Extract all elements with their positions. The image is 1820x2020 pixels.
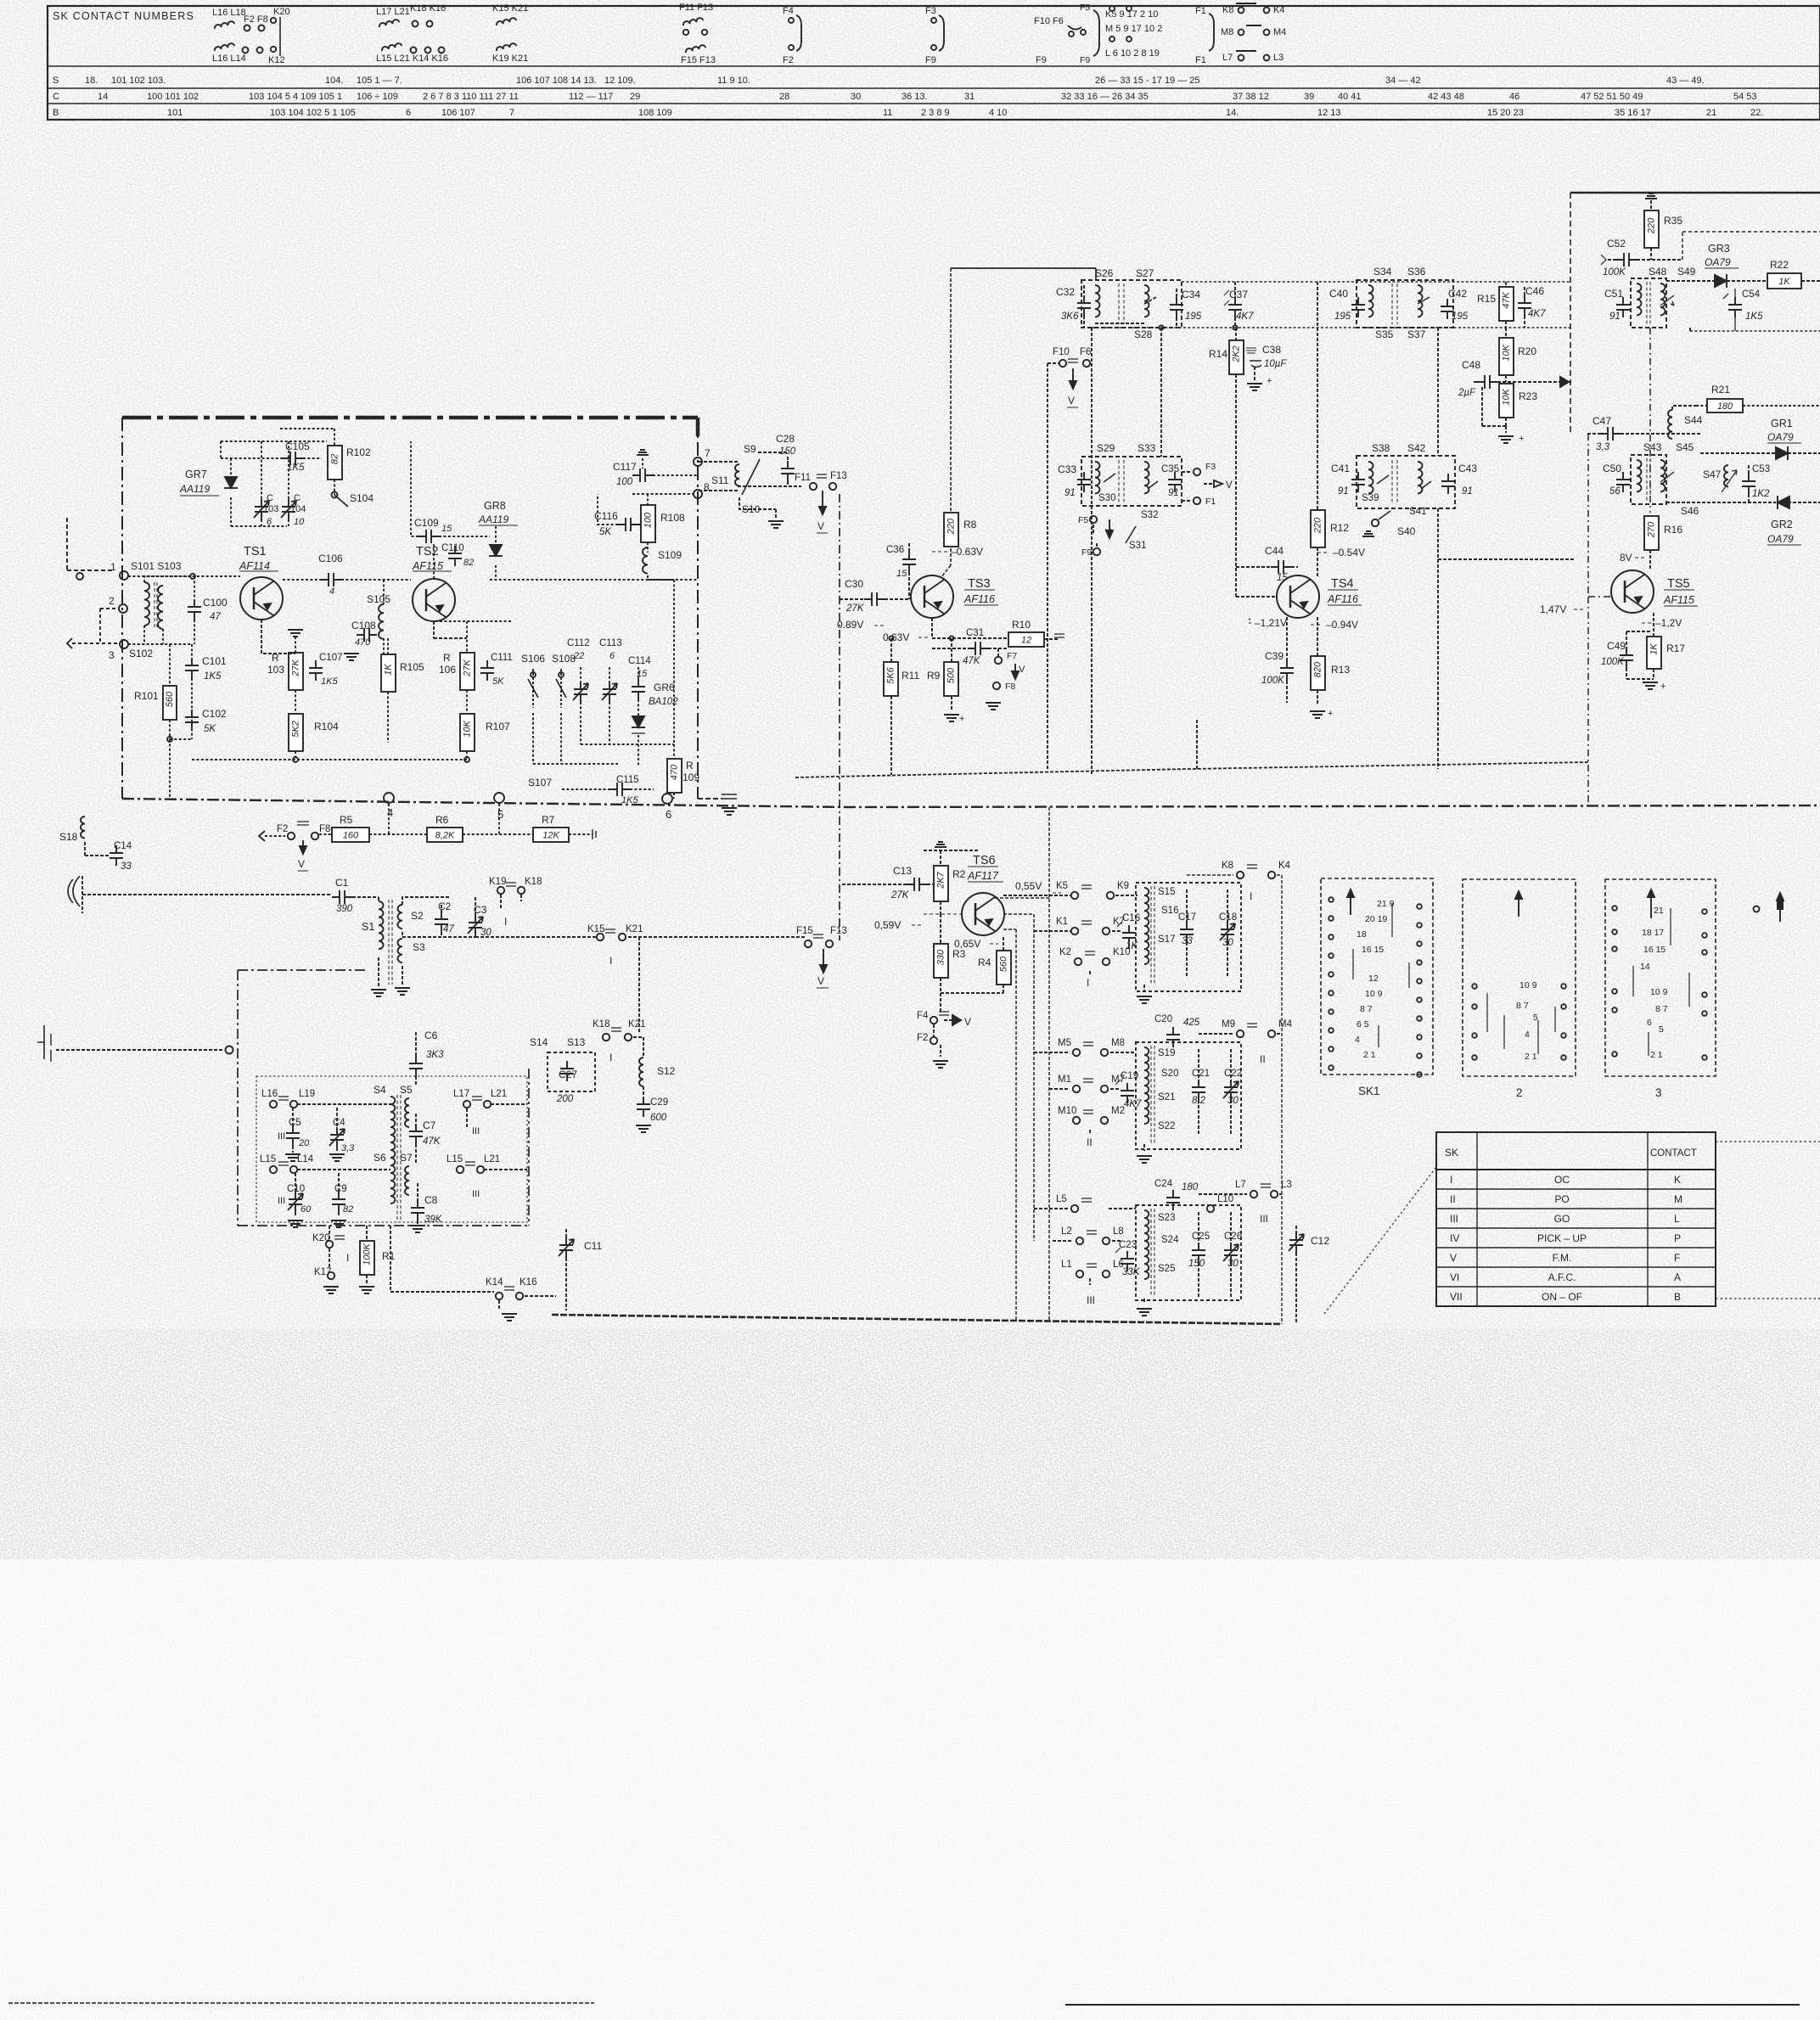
svg-text:F5: F5 [1078, 515, 1088, 525]
antenna input terminal 2 [100, 595, 127, 644]
ground under R9 [944, 714, 964, 724]
contact F13 [817, 471, 847, 490]
svg-text:S18: S18 [59, 831, 78, 843]
transformer4 risers [1438, 328, 1574, 769]
svg-text:6: 6 [1647, 1018, 1652, 1028]
svg-text:C42: C42 [1448, 288, 1467, 300]
svg-text:V: V [1105, 527, 1111, 537]
svg-text:F8: F8 [1005, 682, 1015, 692]
svg-text:560: 560 [165, 691, 175, 707]
svg-text:F2: F2 [783, 55, 794, 65]
coil S44 [1668, 406, 1703, 439]
diode GR7 AA119 [179, 458, 238, 526]
svg-text:A: A [1674, 1271, 1681, 1283]
switch S40 [1362, 511, 1416, 537]
resistor R8 [944, 513, 977, 547]
resistor R35 [1644, 194, 1682, 260]
capacitor C23 [1115, 1240, 1141, 1277]
svg-text:F3: F3 [925, 6, 936, 16]
svg-text:C114: C114 [628, 656, 651, 666]
svg-text:S15: S15 [1158, 887, 1175, 897]
capacitor C42 [1441, 288, 1469, 322]
svg-text:I: I [1250, 890, 1252, 902]
svg-text:1K: 1K [1778, 277, 1790, 287]
svg-text:C1: C1 [335, 877, 349, 889]
svg-text:36 13.: 36 13. [902, 92, 928, 102]
capacitor C5 [278, 1108, 310, 1161]
svg-text:4: 4 [329, 586, 334, 597]
svg-text:47K: 47K [963, 656, 981, 666]
svg-text:AF116: AF116 [1327, 593, 1358, 605]
svg-text:105 1 — 7.: 105 1 — 7. [357, 76, 402, 86]
svg-text:C44: C44 [1265, 545, 1284, 557]
svg-text:L15: L15 [447, 1154, 463, 1164]
svg-text:L16 L14: L16 L14 [212, 53, 246, 64]
capacitor C22 [1223, 1049, 1242, 1134]
svg-text:600: 600 [650, 1113, 667, 1123]
switch S108 [552, 653, 576, 708]
contact-number table frame [48, 6, 1820, 120]
svg-text:2 6 7 8 3 110 111 27 11: 2 6 7 8 3 110 111 27 11 [423, 92, 519, 102]
svg-text:R10: R10 [1012, 619, 1031, 631]
labels S48 S49 [1649, 266, 1696, 278]
voltage -1.2V [1642, 617, 1682, 629]
svg-text:S6: S6 [374, 1152, 386, 1164]
contacts K14 K16 [390, 1226, 556, 1321]
resistor R102 [280, 429, 371, 495]
trimmer C11 [559, 1229, 602, 1310]
svg-text:S26: S26 [1095, 267, 1114, 279]
svg-text:60: 60 [301, 1204, 312, 1215]
capacitor C35 [1161, 464, 1182, 498]
svg-text:18 17: 18 17 [1642, 928, 1664, 938]
resistor R16 [1644, 516, 1682, 550]
svg-text:V: V [1019, 665, 1025, 675]
svg-text:C11: C11 [584, 1240, 602, 1252]
svg-text:M5: M5 [1058, 1038, 1071, 1048]
diode GR3 OA79 [1666, 243, 1767, 288]
capacitor C47 [1587, 415, 1700, 452]
svg-text:R12: R12 [1330, 522, 1349, 534]
svg-text:1K: 1K [383, 664, 393, 676]
capacitor C8 [410, 1183, 443, 1232]
svg-text:VII: VII [1450, 1291, 1463, 1303]
svg-text:M: M [1674, 1193, 1682, 1205]
svg-text:C29: C29 [650, 1097, 668, 1108]
svg-text:21: 21 [1654, 906, 1664, 916]
svg-text:47 52 51 50 49: 47 52 51 50 49 [1581, 92, 1643, 102]
transistor TS6 [962, 854, 1004, 935]
antenna coil S101/S103 [144, 576, 193, 644]
svg-text:R108: R108 [660, 512, 685, 524]
svg-text:R22: R22 [1770, 259, 1789, 271]
contacts L5 L10 [1034, 1194, 1233, 1212]
capacitor C1 [332, 877, 379, 914]
svg-text:10K: 10K [1501, 389, 1511, 406]
svg-text:C26: C26 [1224, 1232, 1242, 1242]
svg-text:12K: 12K [542, 831, 559, 841]
svg-text:F10 F6: F10 F6 [1034, 16, 1064, 26]
svg-text:AF114: AF114 [239, 560, 270, 572]
svg-text:37 38 12: 37 38 12 [1233, 92, 1269, 102]
svg-text:12: 12 [1368, 974, 1379, 984]
svg-text:100 101 102: 100 101 102 [147, 92, 199, 102]
svg-text:M1: M1 [1058, 1075, 1071, 1085]
svg-text:47: 47 [210, 612, 221, 622]
contact F2 [277, 822, 309, 839]
svg-text:PICK – UP: PICK – UP [1537, 1232, 1587, 1244]
svg-text:160: 160 [343, 831, 359, 841]
svg-text:L16 L18: L16 L18 [212, 8, 246, 18]
capacitor C10 [278, 1173, 312, 1227]
capacitor C18 [1219, 889, 1237, 976]
svg-text:L7: L7 [1235, 1180, 1246, 1190]
svg-text:C112: C112 [567, 638, 590, 648]
switch unit SK1 [1321, 878, 1433, 1097]
svg-text:8 7: 8 7 [1655, 1004, 1668, 1014]
svg-text:3: 3 [109, 649, 115, 661]
svg-text:C27: C27 [559, 1069, 577, 1080]
svg-text:R101: R101 [134, 690, 159, 702]
svg-text:C28: C28 [776, 433, 795, 445]
svg-text:S12: S12 [657, 1065, 676, 1077]
svg-text:C24: C24 [1154, 1179, 1173, 1189]
svg-text:27K: 27K [462, 659, 472, 677]
capacitor C54 [1723, 289, 1763, 331]
svg-text:K18: K18 [525, 877, 542, 887]
svg-text:S30: S30 [1098, 493, 1115, 503]
resistor R11 [884, 662, 919, 696]
svg-text:S44: S44 [1684, 414, 1703, 426]
svg-text:R16: R16 [1664, 524, 1682, 536]
svg-text:I: I [609, 1052, 612, 1063]
svg-text:220: 220 [1312, 517, 1323, 534]
svg-text:S49: S49 [1677, 266, 1696, 278]
svg-text:C20: C20 [1154, 1014, 1172, 1024]
svg-text:103 104 102 5 1 105: 103 104 102 5 1 105 [270, 108, 356, 118]
svg-text:47: 47 [443, 924, 454, 934]
svg-text:III: III [472, 1189, 480, 1199]
svg-text:C34: C34 [1182, 289, 1200, 300]
svg-text:III: III [472, 1126, 480, 1136]
svg-text:C106: C106 [318, 553, 343, 564]
svg-text:560: 560 [998, 956, 1008, 972]
trimmer C113 [599, 638, 622, 744]
svg-text:I: I [1450, 1174, 1452, 1186]
transistor TS2 [412, 545, 455, 621]
trimmer S47 [1703, 465, 1737, 492]
svg-text:C8: C8 [424, 1194, 438, 1206]
resistor R15 [1477, 282, 1514, 328]
svg-text:F4: F4 [917, 1011, 929, 1021]
contacts L15 L14 [260, 1154, 390, 1173]
svg-text:L15 L21 K14 K16: L15 L21 K14 K16 [376, 53, 448, 64]
svg-text:R: R [443, 652, 451, 664]
capacitor C19 [1115, 1071, 1142, 1109]
svg-text:S102: S102 [129, 648, 153, 659]
contact F6 [1067, 347, 1091, 407]
svg-text:I: I [609, 955, 612, 967]
capacitor C116 [594, 494, 645, 537]
long bottom wire to band switches [552, 1315, 1282, 1324]
switch S10 ground [739, 497, 784, 528]
svg-text:SK1: SK1 [1358, 1085, 1380, 1097]
svg-text:33K: 33K [1122, 1267, 1141, 1277]
svg-text:82: 82 [329, 454, 340, 464]
svg-text:2µF: 2µF [1458, 388, 1476, 398]
capacitor C48 [1458, 359, 1571, 398]
svg-text:C14: C14 [114, 841, 132, 851]
svg-text:106 107 108 14 13.: 106 107 108 14 13. [516, 76, 597, 86]
TS6 collector bus [995, 807, 1049, 1321]
resistor R109 [667, 744, 699, 799]
svg-text:C7: C7 [423, 1119, 436, 1131]
capacitor C49 [1601, 631, 1650, 679]
svg-text:0,55V: 0,55V [1015, 880, 1042, 892]
transistor TS5 [1611, 570, 1698, 613]
contacts K15 K21 [587, 924, 806, 1032]
svg-text:2: 2 [109, 595, 115, 607]
svg-text:K4: K4 [1273, 5, 1284, 15]
svg-text:270: 270 [1646, 521, 1656, 538]
capacitor C36 [886, 543, 916, 599]
contacts K5 K9 [1003, 881, 1137, 899]
IF transformer S34 S36 [1357, 266, 1453, 340]
varactor diode GR6 BA102 [632, 682, 678, 766]
svg-text:V: V [1450, 1252, 1457, 1264]
capacitor C105 [221, 440, 322, 473]
svg-text:4K7: 4K7 [1236, 311, 1254, 322]
FM det transformer S48/S49 [1631, 278, 1674, 328]
svg-text:C31: C31 [966, 628, 984, 638]
voltage -0.54V [1317, 547, 1365, 558]
svg-text:CONTACT: CONTACT [1650, 1148, 1697, 1159]
contacts L1 L6 [1061, 1260, 1124, 1306]
svg-text:–0.54V: –0.54V [1333, 547, 1365, 558]
svg-text:S31: S31 [1129, 541, 1146, 551]
svg-text:S42: S42 [1407, 442, 1426, 454]
svg-text:C38: C38 [1262, 344, 1281, 356]
wire tuner mid rails [434, 580, 674, 744]
capacitor C34 [1170, 289, 1202, 328]
row C contact numbers [53, 92, 1757, 102]
svg-text:AF115: AF115 [412, 560, 443, 572]
transistor TS3 [911, 575, 998, 618]
svg-text:K15 K21: K15 K21 [492, 3, 528, 14]
svg-text:112 — 117: 112 — 117 [569, 92, 613, 102]
svg-text:C113: C113 [599, 638, 622, 648]
svg-text:S36: S36 [1407, 266, 1426, 278]
svg-text:180: 180 [1717, 401, 1733, 412]
svg-text:VI: VI [1450, 1271, 1459, 1283]
svg-text:18.: 18. [85, 76, 98, 86]
IF transformer S38 S42 [1357, 442, 1455, 517]
supply rail TS6 [924, 842, 978, 850]
svg-text:K19: K19 [489, 877, 506, 887]
svg-text:C5: C5 [289, 1118, 301, 1128]
svg-text:12 109.: 12 109. [604, 76, 636, 86]
svg-text:3K6: 3K6 [1061, 311, 1079, 322]
switch unit 3 [1605, 879, 1716, 1099]
svg-text:10µF: 10µF [1264, 359, 1287, 369]
contacts M1 M7 [1049, 1075, 1125, 1092]
svg-text:K8: K8 [1222, 861, 1233, 871]
diode GR1 OA79 [1700, 418, 1820, 460]
resistor R13 [1311, 617, 1350, 704]
svg-text:34 — 42: 34 — 42 [1385, 76, 1421, 86]
lone contact right of unit 3 [1754, 893, 1784, 922]
svg-text:3K3: 3K3 [426, 1050, 444, 1060]
svg-text:S17: S17 [1158, 934, 1175, 945]
svg-text:F6: F6 [1080, 347, 1091, 357]
LW coil pack S23-S25 [1136, 1205, 1241, 1316]
svg-text:ON – OF: ON – OF [1542, 1291, 1582, 1303]
svg-text:470: 470 [669, 764, 679, 780]
svg-text:M8: M8 [1221, 27, 1233, 37]
voltage -0.94V [1311, 619, 1358, 631]
svg-text:–1,21V: –1,21V [1255, 617, 1287, 629]
oscillator coil S4/S6 [374, 1084, 413, 1222]
contacts M10 M2 [1058, 1106, 1125, 1148]
dipole antenna bracket [37, 1025, 233, 1062]
wire jack to C1 [98, 894, 332, 895]
svg-text:S47: S47 [1703, 469, 1722, 480]
svg-text:C36: C36 [886, 545, 904, 555]
svg-text:82: 82 [343, 1204, 353, 1215]
capacitor C16 [1117, 913, 1140, 951]
svg-text:R104: R104 [314, 721, 339, 732]
labels S43 S45 [1643, 441, 1694, 453]
svg-text:I: I [346, 1252, 349, 1264]
svg-text:S9: S9 [744, 443, 756, 455]
transistor TS4 [1277, 575, 1362, 618]
svg-text:R5: R5 [340, 814, 353, 826]
FM tuner unit dash-dot enclosure [122, 418, 698, 799]
resistor R6 [369, 814, 514, 842]
svg-text:40 41: 40 41 [1338, 92, 1362, 102]
svg-text:C47: C47 [1592, 415, 1611, 427]
band group K15 K21 [492, 3, 528, 64]
capacitor C27 [548, 1052, 595, 1104]
svg-text:10: 10 [294, 517, 305, 527]
svg-text:C102: C102 [202, 708, 227, 720]
capacitor C13 [842, 865, 935, 901]
svg-text:C51: C51 [1604, 288, 1623, 300]
svg-text:22.: 22. [1750, 108, 1763, 118]
svg-text:F1: F1 [1195, 55, 1206, 65]
svg-text:I: I [504, 916, 507, 928]
svg-text:M2: M2 [1111, 1106, 1125, 1116]
svg-text:C109: C109 [414, 517, 439, 529]
svg-text:150: 150 [779, 446, 796, 457]
capacitor C28 [776, 433, 796, 486]
svg-text:1K: 1K [1649, 643, 1659, 655]
svg-text:+: + [1519, 434, 1524, 444]
svg-text:III: III [1260, 1213, 1268, 1225]
svg-text:M4: M4 [1278, 1019, 1293, 1030]
svg-text:3: 3 [1655, 1086, 1662, 1099]
band group F11 F13 [679, 3, 716, 65]
diode GR8 AA119 [478, 500, 518, 580]
svg-text:30: 30 [1227, 1259, 1239, 1269]
svg-text:104.: 104. [325, 76, 343, 86]
svg-text:V: V [1226, 480, 1233, 491]
svg-text:S37: S37 [1407, 328, 1426, 340]
svg-text:L2: L2 [1061, 1226, 1072, 1237]
svg-text:6: 6 [406, 108, 411, 118]
svg-text:91: 91 [1609, 311, 1621, 322]
svg-text:–0.94V: –0.94V [1326, 619, 1358, 631]
capacitor C114 [628, 656, 651, 716]
svg-text:11: 11 [883, 108, 892, 118]
svg-text:K5: K5 [1056, 881, 1068, 891]
svg-text:F11 F13: F11 F13 [679, 3, 713, 13]
capacitor C101 [185, 644, 227, 739]
contact F2b [917, 1024, 948, 1068]
svg-text:C9: C9 [334, 1184, 347, 1194]
capacitor C37 [1224, 282, 1254, 328]
capacitor C100 [188, 576, 227, 644]
svg-text:M9: M9 [1222, 1019, 1235, 1030]
svg-text:S106: S106 [521, 653, 545, 665]
coil S105 [367, 580, 390, 655]
svg-text:S38: S38 [1372, 442, 1390, 454]
svg-text:R20: R20 [1518, 345, 1536, 357]
resistor R4 [941, 937, 1011, 993]
svg-text:100: 100 [616, 477, 633, 487]
svg-text:F15 F13: F15 F13 [681, 55, 716, 65]
svg-text:14: 14 [98, 92, 108, 102]
svg-text:425: 425 [1183, 1018, 1200, 1028]
AM bus wire [475, 936, 596, 938]
capacitor C17 [1178, 889, 1196, 976]
svg-text:12 13: 12 13 [1317, 108, 1341, 118]
svg-text:K16: K16 [520, 1277, 536, 1288]
oscillator inner dotted box [256, 1076, 527, 1222]
svg-text:32 33 16 — 26 34 35: 32 33 16 — 26 34 35 [1061, 92, 1149, 102]
svg-text:10 9: 10 9 [1650, 987, 1668, 997]
svg-text:C54: C54 [1742, 289, 1761, 300]
svg-text:L7: L7 [1222, 53, 1233, 63]
svg-text:TS3: TS3 [968, 577, 991, 591]
svg-text:PO: PO [1554, 1193, 1569, 1205]
svg-text:5K: 5K [204, 724, 216, 734]
svg-text:C33: C33 [1058, 463, 1076, 475]
svg-text:82: 82 [463, 558, 474, 568]
capacitor C108 [344, 620, 377, 660]
contacts S14 S13 K18 K21 [530, 1019, 645, 1063]
svg-text:S11: S11 [711, 474, 729, 486]
svg-text:F3: F3 [1205, 462, 1216, 472]
svg-text:S43: S43 [1643, 441, 1662, 453]
svg-text:15 20 23: 15 20 23 [1487, 108, 1524, 118]
svg-text:16 15: 16 15 [1643, 945, 1666, 955]
capacitor C52 [1601, 238, 1682, 278]
band group K5 9 17 2 10 bracket [1080, 3, 1162, 65]
ground under R13 [1310, 709, 1333, 719]
svg-text:R: R [686, 760, 694, 772]
svg-text:SK CONTACT NUMBERS: SK CONTACT NUMBERS [53, 10, 194, 22]
svg-text:220: 220 [1646, 217, 1656, 234]
svg-text:0,59V: 0,59V [874, 919, 901, 931]
svg-text:S33: S33 [1137, 442, 1156, 454]
svg-text:C53: C53 [1752, 464, 1770, 474]
contact K17 [314, 1267, 339, 1293]
row B contact numbers [53, 108, 1763, 118]
capacitor C24 [1154, 1179, 1199, 1210]
svg-text:8V: 8V [1620, 552, 1632, 564]
svg-text:C12: C12 [1311, 1235, 1329, 1247]
